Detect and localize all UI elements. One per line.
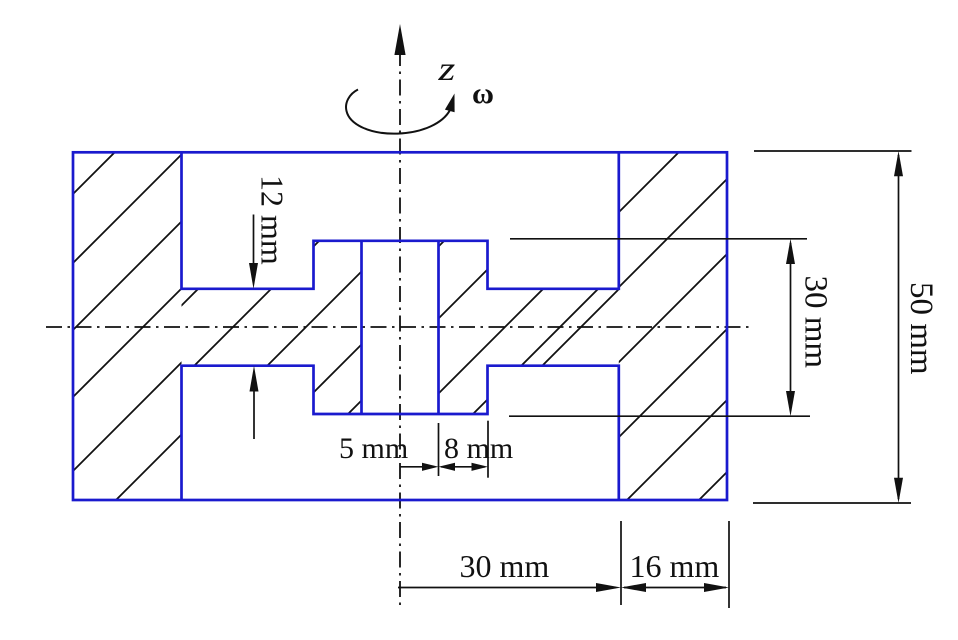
- dimension 12 mm up arrow: [253, 386, 255, 439]
- extension line hub right: [487, 421, 489, 478]
- vertical axis centerline z: [399, 50, 401, 609]
- svg-text:30 mm: 30 mm: [460, 548, 550, 584]
- svg-text:16 mm: 16 mm: [630, 548, 720, 584]
- extension line hub top right: [510, 238, 807, 240]
- blue outline: outer rectangle: [73, 152, 727, 500]
- extension line rim inner bottom: [620, 521, 622, 605]
- dimension 8 mm line and arrows: [441, 466, 485, 468]
- extension line rim outer bottom: [728, 521, 730, 608]
- blue outline: bore left edge: [360, 241, 363, 414]
- extension line 50 mm bottom: [753, 502, 911, 504]
- dimension 50 mm vertical line: [898, 155, 900, 499]
- svg-text:30 mm: 30 mm: [798, 276, 834, 369]
- hatching left rim: [0, 0, 616, 640]
- extension line hub bottom right: [509, 415, 810, 417]
- extension line bore right: [438, 423, 440, 476]
- svg-text:8 mm: 8 mm: [444, 432, 513, 465]
- horizontal centerline: [46, 326, 753, 328]
- svg-text:ω: ω: [472, 77, 494, 110]
- extension line 50 mm top: [754, 150, 912, 152]
- svg-text:12 mm: 12 mm: [255, 175, 291, 265]
- blue outline: bore right edge: [437, 241, 440, 414]
- rotation arrow omega: [346, 90, 450, 134]
- hatching web and hub left of bore: [0, 0, 762, 640]
- blue outline: top pocket and hub profile: [182, 152, 619, 288]
- blue outline: bottom pocket and hub profile: [182, 366, 619, 500]
- svg-text:z: z: [437, 50, 455, 88]
- dimension 30 mm right vertical line: [790, 243, 792, 411]
- dimension 16 mm line and arrows: [624, 587, 726, 589]
- z axis arrowhead: [394, 24, 405, 55]
- svg-text:50 mm: 50 mm: [903, 282, 939, 375]
- dimension 5 mm line and arrow: [400, 466, 426, 468]
- dimension 30 mm bottom line and arrow: [398, 587, 616, 589]
- dimension 12 mm down arrow: [253, 215, 255, 269]
- svg-text:5 mm: 5 mm: [339, 432, 408, 465]
